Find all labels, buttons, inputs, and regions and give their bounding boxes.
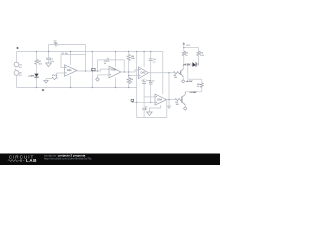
svg-text:D2: D2	[196, 64, 198, 66]
svg-text:10k: 10k	[174, 77, 177, 79]
svg-text:http://circuitlab.com/c/dex4km: http://circuitlab.com/c/dex4km9ah3w79y	[44, 157, 92, 161]
svg-text:OA2: OA2	[111, 69, 116, 72]
svg-text:OA1: OA1	[67, 69, 72, 72]
svg-text:+0.01V: +0.01V	[186, 81, 193, 83]
svg-text:100: 100	[176, 104, 179, 106]
svg-text:+0.72V: +0.72V	[184, 64, 191, 66]
svg-text:-: -	[17, 70, 18, 73]
svg-text:+1.26V: +1.26V	[189, 92, 197, 94]
svg-text:OA4: OA4	[157, 99, 162, 102]
svg-text:1k: 1k	[197, 86, 199, 88]
svg-text:+0.67V: +0.67V	[28, 76, 35, 78]
svg-text:10k: 10k	[65, 53, 68, 55]
svg-text:OA3: OA3	[141, 72, 146, 75]
svg-text:LAB: LAB	[26, 158, 37, 163]
svg-text:1u: 1u	[145, 108, 147, 110]
svg-text:R2: R2	[62, 53, 64, 55]
svg-text:VCC: VCC	[186, 45, 191, 47]
